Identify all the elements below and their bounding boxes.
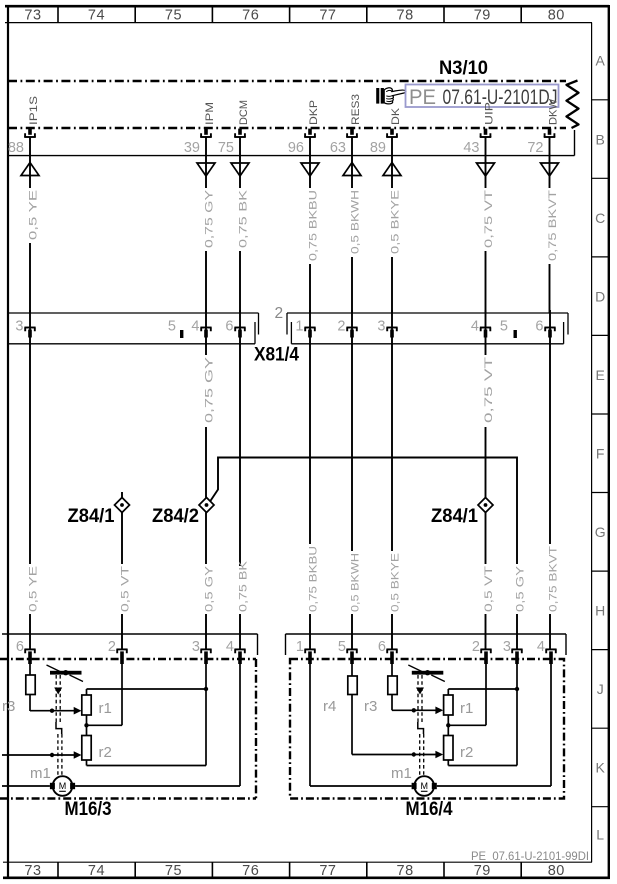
svg-text:5: 5 xyxy=(500,319,508,335)
M16/4 wire pin1 to motor xyxy=(310,664,412,786)
splice Z84/2 xyxy=(199,498,214,513)
M16/3 wiper wire to r1 xyxy=(30,707,82,715)
N3/10 pin 43 (UIP) xyxy=(463,102,495,156)
wire 0,75 BKVT from N3/10 to X81/4 xyxy=(541,137,559,313)
wire 0,75 VT from N3/10 to X81/4 xyxy=(477,137,495,313)
M16/4 motor right wire to pin 4 xyxy=(437,664,551,786)
svg-text:6: 6 xyxy=(378,639,386,655)
svg-text:E: E xyxy=(596,367,605,383)
svg-text:H: H xyxy=(595,603,605,619)
N3/10 pin 88 (IP1S) xyxy=(8,96,40,156)
M16/4 dash-dot component box xyxy=(290,659,564,799)
svg-text:6: 6 xyxy=(16,639,24,655)
svg-text:79: 79 xyxy=(474,863,491,879)
svg-text:39: 39 xyxy=(184,140,200,156)
svg-text:0,75 VT: 0,75 VT xyxy=(483,190,495,248)
svg-text:DKW: DKW xyxy=(548,98,560,125)
svg-text:0,75 BKBU: 0,75 BKBU xyxy=(307,190,319,261)
M16/3 resistor r2 xyxy=(82,736,91,766)
svg-text:3: 3 xyxy=(192,639,200,655)
X81/4 pin 6 (left half) xyxy=(225,310,245,345)
svg-text:74: 74 xyxy=(88,863,105,879)
svg-text:76: 76 xyxy=(242,7,259,23)
X81/4 pin 1 (right half) xyxy=(295,310,315,345)
M16/3 bimetal element xyxy=(47,665,84,682)
svg-text:0,5 BKYE: 0,5 BKYE xyxy=(389,190,401,254)
svg-text:C: C xyxy=(595,210,605,226)
svg-text:N3/10: N3/10 xyxy=(439,57,488,79)
control unit N3/10 (dash-dot box with break zigzag) xyxy=(8,81,579,129)
M16/3 resistor r1 xyxy=(82,689,91,736)
svg-text:43: 43 xyxy=(463,140,479,156)
wire 0,75 VT X81/4 pin4 to splice Z84/1 (right) xyxy=(483,344,495,498)
svg-text:B: B xyxy=(596,131,605,147)
svg-text:80: 80 xyxy=(548,7,565,23)
M16/3 wiper wire to r2 (from off-page) xyxy=(2,751,82,759)
svg-text:D: D xyxy=(595,288,605,304)
M16/4 pin 4 xyxy=(537,639,557,664)
PE document reference box PE 07.61-U-2101DJ xyxy=(406,85,559,109)
X81/4 pin 6 (right half) xyxy=(535,310,555,345)
M16/4 pin 5 xyxy=(338,639,358,664)
splice Z84/1 (left) xyxy=(115,492,130,513)
N3/10 pin 75 (DCM) xyxy=(218,100,250,156)
svg-text:Z84/1: Z84/1 xyxy=(431,505,478,527)
svg-text:m1: m1 xyxy=(391,765,412,782)
M16/3 motor right wire to pin 4 xyxy=(75,664,240,786)
svg-text:J: J xyxy=(597,681,604,697)
svg-text:X81/4: X81/4 xyxy=(254,344,299,366)
M16/3 resistor r3 (on pin 6 wire) xyxy=(26,664,35,711)
svg-text:PE 07.61-U-2101-99DI: PE 07.61-U-2101-99DI xyxy=(471,849,589,863)
svg-text:96: 96 xyxy=(288,140,304,156)
svg-text:75: 75 xyxy=(165,7,182,23)
svg-text:79: 79 xyxy=(474,7,491,23)
svg-text:5: 5 xyxy=(168,319,176,335)
svg-text:r3: r3 xyxy=(2,698,15,715)
wire 0,5 YE from N3/10 to X81/4 xyxy=(21,137,39,313)
svg-text:0,75 BKBU: 0,75 BKBU xyxy=(307,546,319,612)
M16/3 pin 3 xyxy=(192,639,212,664)
svg-text:63: 63 xyxy=(330,140,346,156)
svg-text:RES3: RES3 xyxy=(350,94,362,125)
M16/3 dash-dot component box xyxy=(0,659,256,799)
svg-text:78: 78 xyxy=(397,863,414,879)
svg-text:73: 73 xyxy=(24,7,41,23)
M16/4 wire pin 3 to r1 top and r2 bottom xyxy=(448,664,519,766)
svg-text:3: 3 xyxy=(377,319,385,335)
wire 0,75 GY from N3/10 to X81/4 xyxy=(197,137,215,313)
svg-text:07.61-U-2101DJ: 07.61-U-2101DJ xyxy=(443,85,558,109)
svg-text:78: 78 xyxy=(397,7,414,23)
svg-text:72: 72 xyxy=(527,140,543,156)
svg-text:A: A xyxy=(596,53,606,69)
svg-text:r1: r1 xyxy=(460,700,473,717)
svg-text:IP1S: IP1S xyxy=(28,96,40,125)
M16/4 pin 6 xyxy=(378,639,398,664)
M16/4 resistor r1 xyxy=(444,689,453,736)
M16/4 node r1-r2 junction to pin 2 xyxy=(446,664,486,728)
M16/3 wire pin 3 to r1 top and r2 bottom xyxy=(87,664,209,766)
M16/4 mechanical linkage (dashed) xyxy=(416,675,424,776)
svg-text:77: 77 xyxy=(319,863,336,879)
svg-text:M16/3: M16/3 xyxy=(65,798,112,820)
svg-text:89: 89 xyxy=(370,140,386,156)
M16/3 pin 2 xyxy=(108,639,128,664)
svg-text:75: 75 xyxy=(165,863,182,879)
M16/4 pin 3 xyxy=(503,639,523,664)
splice Z84/1 (right) xyxy=(478,498,493,513)
svg-text:6: 6 xyxy=(535,319,543,335)
M16/4 resistor r2 xyxy=(444,736,453,766)
svg-text:0,75 GY: 0,75 GY xyxy=(203,189,215,248)
svg-text:0,5 BKWH: 0,5 BKWH xyxy=(349,190,361,254)
connector rail line below N3/10 xyxy=(8,130,575,156)
svg-text:G: G xyxy=(595,524,606,540)
svg-text:0,75 BKVT: 0,75 BKVT xyxy=(547,190,559,261)
M16/4 pin 2 xyxy=(472,639,492,664)
svg-text:6: 6 xyxy=(225,319,233,335)
wire 0,5 GY Z84/2 to M16/3 pin3 xyxy=(203,513,215,650)
svg-text:0,75 BK: 0,75 BK xyxy=(237,560,249,612)
N3/10 pin 89 (DK) xyxy=(370,107,402,156)
svg-text:K: K xyxy=(596,760,606,776)
svg-text:2: 2 xyxy=(472,639,480,655)
X81/4 pin 4 (right half) xyxy=(471,310,491,345)
svg-text:4: 4 xyxy=(537,639,545,655)
row letter column A-L xyxy=(592,53,609,843)
svg-text:2: 2 xyxy=(108,639,116,655)
wire 0,5 VT Z84/1 to M16/3 pin2 xyxy=(119,513,131,650)
N3/10 pin 63 (RES3) xyxy=(330,94,362,156)
wire 0,5 BKWH from N3/10 to X81/4 xyxy=(343,137,361,313)
M16/4 wiper wire pin5/r4 to r2 xyxy=(352,751,443,759)
svg-text:L: L xyxy=(596,827,604,843)
svg-text:2: 2 xyxy=(275,305,284,322)
svg-text:2: 2 xyxy=(337,319,345,335)
M16/3 pin 6 xyxy=(16,639,36,664)
M16/4 resistor r4 (on pin 5 wire) xyxy=(348,664,357,755)
svg-text:3: 3 xyxy=(503,639,511,655)
svg-text:0,75 GY: 0,75 GY xyxy=(203,356,215,423)
svg-text:77: 77 xyxy=(319,7,336,23)
N3/10 pin 72 (DKW) xyxy=(527,98,559,156)
wire 0,75 BK from N3/10 to X81/4 xyxy=(231,137,249,313)
wire 0,75 BK X81/4 pin6 to M16/3 pin4 xyxy=(237,344,249,649)
svg-text:m1: m1 xyxy=(30,765,51,782)
svg-text:1: 1 xyxy=(296,639,304,655)
X81/4 pin 5 (left half, unused) xyxy=(168,319,183,339)
connector X81/4 left half housing xyxy=(8,313,259,344)
wire 0,75 GY X81/4 pin4 to splice Z84/2 xyxy=(203,344,215,498)
connector X81/4 right half housing xyxy=(287,313,568,344)
svg-text:M16/4: M16/4 xyxy=(406,798,453,820)
wire 0,5 BKYE X81/4 pin3 to M16/4 pin6 xyxy=(389,344,401,649)
svg-text:Z84/1: Z84/1 xyxy=(68,505,115,527)
svg-text:r1: r1 xyxy=(99,700,112,717)
svg-text:DCM: DCM xyxy=(238,100,250,125)
svg-text:88: 88 xyxy=(8,140,24,156)
X81/4 pin 3 (left half) xyxy=(15,310,35,345)
wire 0,75 BKBU from N3/10 to X81/4 xyxy=(301,137,319,313)
svg-text:r3: r3 xyxy=(364,698,377,715)
X81/4 pin 3 (right half) xyxy=(377,310,397,345)
svg-text:80: 80 xyxy=(548,863,565,879)
M16/4 resistor r3 (on pin 6 wire) xyxy=(388,664,397,710)
svg-text:0,5 VT: 0,5 VT xyxy=(119,566,131,612)
pointing hand icon xyxy=(376,88,406,104)
svg-text:DKP: DKP xyxy=(308,100,320,125)
M16/3 connector housing line xyxy=(2,634,258,655)
M16/4 wiper wire pin6/r3 to r1 xyxy=(392,707,443,715)
M16/4 connector housing line xyxy=(286,634,567,655)
M16/3 motor left wire (off-page) xyxy=(2,785,50,787)
wire 0,5 YE X81/4 pin3 to M16/3 pin6 xyxy=(27,344,39,649)
svg-text:0,5 YE: 0,5 YE xyxy=(27,566,39,612)
svg-text:r4: r4 xyxy=(323,698,336,715)
svg-text:UIP: UIP xyxy=(484,102,496,125)
jumper wire Z84/2 to M16/4 pin3 (0,5 GY) xyxy=(210,458,526,650)
M16/3 motor m1 xyxy=(50,776,75,796)
svg-text:0,5 GY: 0,5 GY xyxy=(203,565,215,612)
column number band bottom xyxy=(24,862,564,879)
svg-text:r2: r2 xyxy=(99,744,112,761)
wire 0,75 BKVT X81/4 pin6 to M16/4 pin4 xyxy=(547,344,559,649)
svg-text:PE: PE xyxy=(409,85,436,109)
M16/3 mechanical linkage (dashed) xyxy=(54,675,62,776)
svg-text:75: 75 xyxy=(218,140,234,156)
svg-text:M: M xyxy=(420,781,428,791)
svg-text:0,5 BKWH: 0,5 BKWH xyxy=(349,553,361,612)
X81/4 pin 4 (left half) xyxy=(191,310,211,345)
wire 0,5 VT Z84/1 to M16/4 pin2 xyxy=(483,513,495,650)
svg-text:1: 1 xyxy=(295,319,303,335)
svg-text:4: 4 xyxy=(471,319,479,335)
svg-text:76: 76 xyxy=(242,863,259,879)
svg-text:5: 5 xyxy=(338,639,346,655)
svg-text:0,5 BKYE: 0,5 BKYE xyxy=(389,553,401,612)
wire 0,5 BKWH X81/4 pin2 to M16/4 pin5 xyxy=(349,344,361,649)
svg-text:0,75 BK: 0,75 BK xyxy=(237,189,249,248)
N3/10 pin 39 (IPM) xyxy=(184,102,216,156)
M16/4 pin 1 xyxy=(296,639,316,664)
svg-text:DK: DK xyxy=(390,107,402,125)
N3/10 pin 96 (DKP) xyxy=(288,100,320,156)
svg-text:0,5 YE: 0,5 YE xyxy=(27,190,39,240)
svg-text:74: 74 xyxy=(88,7,105,23)
svg-text:IPM: IPM xyxy=(204,102,216,125)
X81/4 pin 5 (right half, unused) xyxy=(500,319,517,339)
svg-text:4: 4 xyxy=(226,639,234,655)
svg-text:0,5 VT: 0,5 VT xyxy=(483,566,495,612)
svg-text:Z84/2: Z84/2 xyxy=(152,505,199,527)
M16/4 motor m1 xyxy=(412,776,437,796)
svg-text:0,75 VT: 0,75 VT xyxy=(483,357,495,423)
M16/3 node r1-r2 junction to pin 2 xyxy=(84,664,122,728)
svg-text:0,5 GY: 0,5 GY xyxy=(514,565,526,612)
svg-text:F: F xyxy=(596,445,605,461)
X81/4 pin 2 (right half) xyxy=(337,310,357,345)
wire 0,5 BKYE from N3/10 to X81/4 xyxy=(383,137,401,313)
M16/4 bimetal element xyxy=(408,665,445,682)
svg-text:3: 3 xyxy=(15,319,23,335)
svg-text:r2: r2 xyxy=(460,744,473,761)
wire 0,75 BKBU X81/4 pin1 to M16/4 pin1 xyxy=(307,344,319,649)
svg-text:4: 4 xyxy=(191,319,199,335)
column number band top xyxy=(24,6,564,23)
svg-text:0,75 BKVT: 0,75 BKVT xyxy=(547,546,559,612)
svg-text:M: M xyxy=(59,781,67,791)
svg-text:73: 73 xyxy=(24,863,41,879)
M16/3 pin 4 xyxy=(226,639,246,664)
